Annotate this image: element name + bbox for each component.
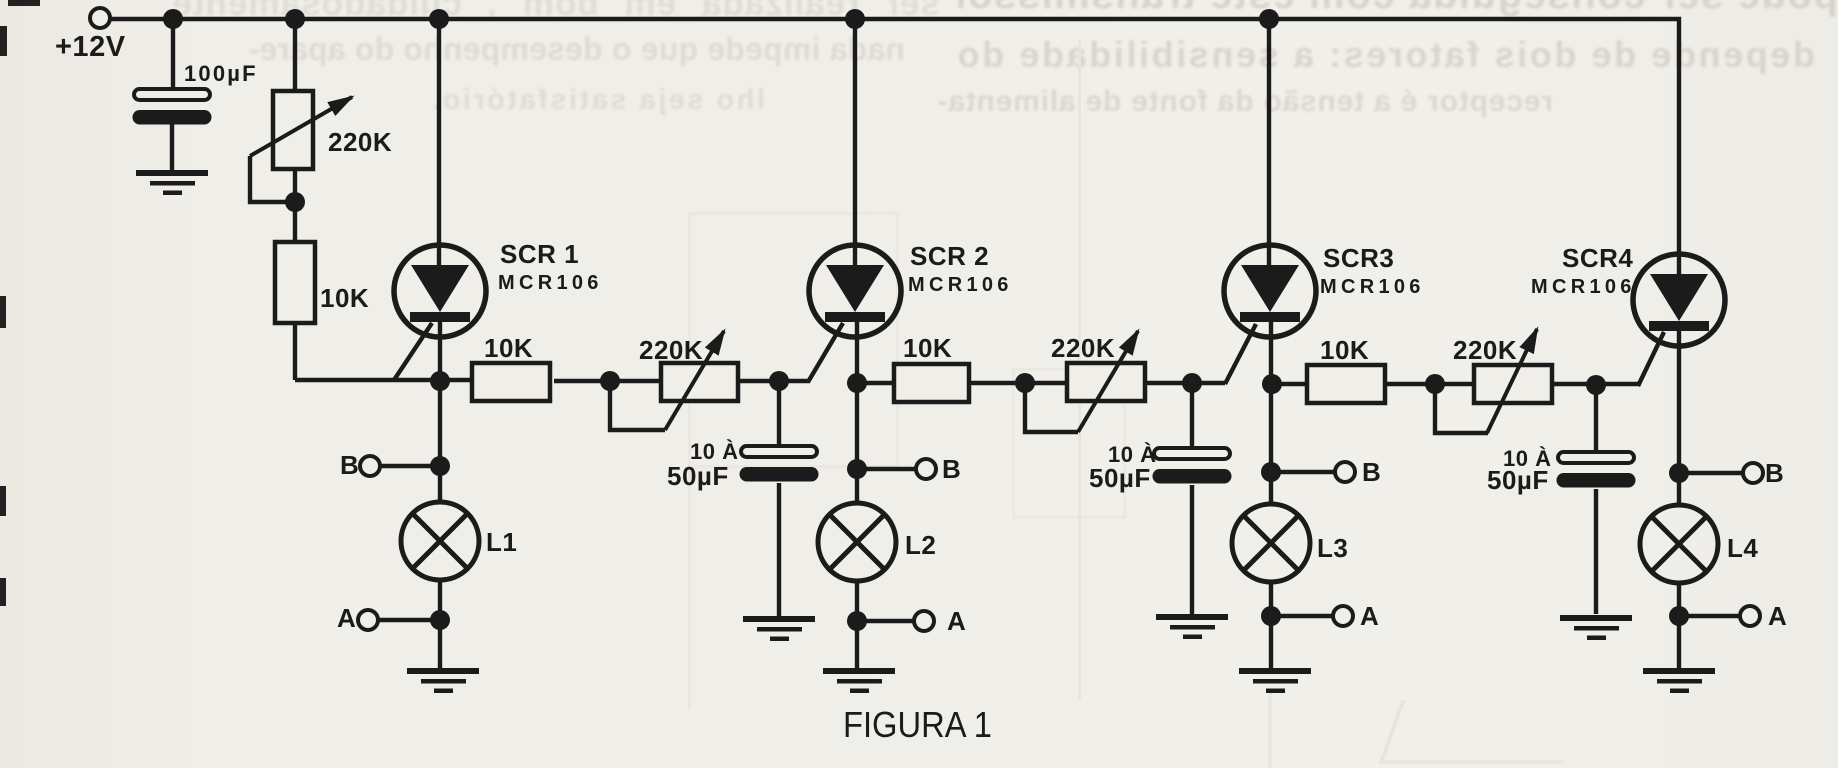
svg-text:MCR106: MCR106	[498, 272, 603, 294]
svg-text:10K: 10K	[903, 333, 952, 363]
svg-text:220K: 220K	[1453, 335, 1517, 365]
svg-text:A: A	[337, 603, 356, 633]
svg-text:MCR106: MCR106	[908, 274, 1013, 296]
svg-text:10K: 10K	[484, 333, 533, 363]
svg-text:L4: L4	[1727, 533, 1758, 563]
svg-text:220K: 220K	[328, 127, 392, 157]
svg-text:100µF: 100µF	[184, 61, 258, 86]
svg-text:10K: 10K	[1320, 335, 1369, 365]
svg-text:A: A	[947, 606, 966, 636]
svg-text:A: A	[1768, 601, 1787, 631]
svg-text:SCR 1: SCR 1	[500, 239, 579, 269]
svg-text:L1: L1	[486, 527, 517, 557]
svg-text:50µF: 50µF	[667, 461, 729, 491]
svg-text:220K: 220K	[1051, 333, 1115, 363]
svg-text:B: B	[942, 454, 961, 484]
svg-text:FIGURA 1: FIGURA 1	[843, 704, 992, 745]
svg-text:B: B	[1362, 457, 1381, 487]
svg-text:MCR106: MCR106	[1320, 276, 1425, 298]
svg-text:220K: 220K	[639, 335, 703, 365]
svg-text:SCR3: SCR3	[1323, 243, 1394, 273]
svg-text:SCR4: SCR4	[1562, 243, 1633, 273]
svg-text:L2: L2	[905, 530, 936, 560]
svg-text:B: B	[340, 450, 359, 480]
svg-text:MCR106: MCR106	[1531, 276, 1636, 298]
svg-text:B: B	[1765, 458, 1784, 488]
svg-text:L3: L3	[1317, 533, 1348, 563]
svg-text:50µF: 50µF	[1089, 463, 1151, 493]
svg-text:10K: 10K	[320, 283, 369, 313]
svg-text:50µF: 50µF	[1487, 465, 1549, 495]
svg-text:A: A	[1360, 601, 1379, 631]
svg-text:+12V: +12V	[55, 31, 126, 63]
svg-text:SCR 2: SCR 2	[910, 241, 989, 271]
